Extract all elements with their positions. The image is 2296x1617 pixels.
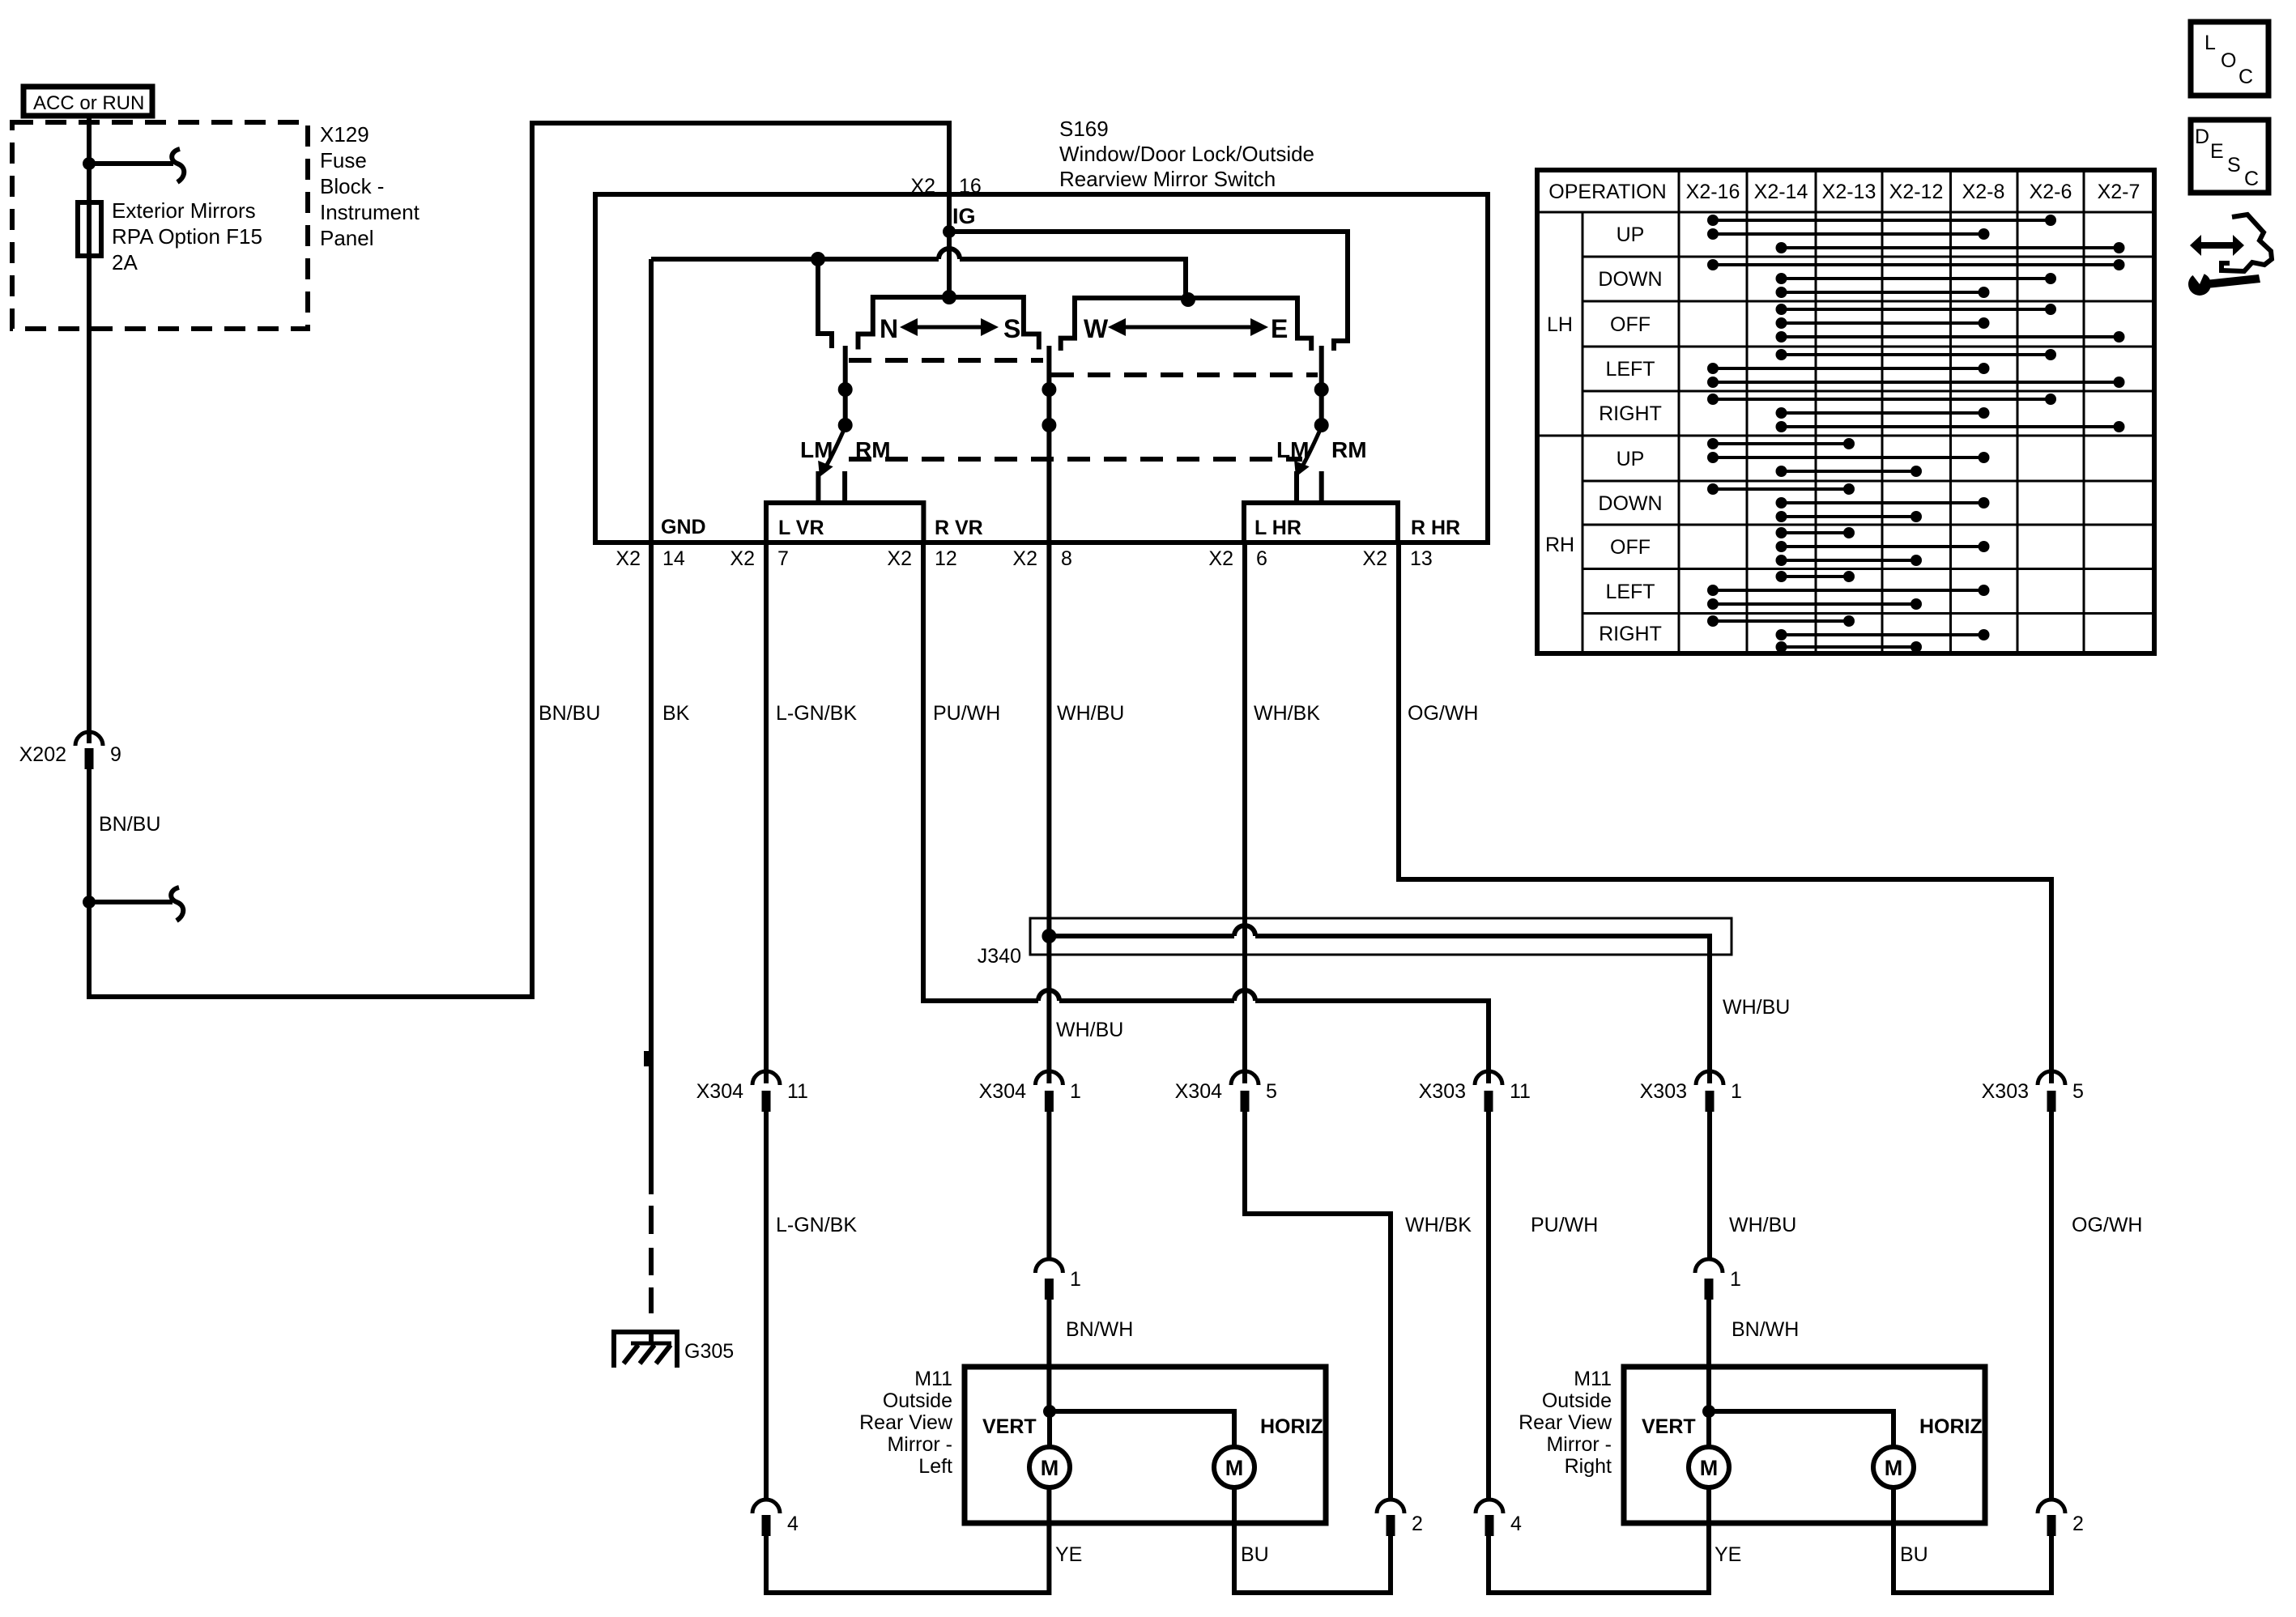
svg-text:X2: X2 bbox=[616, 547, 641, 570]
svg-text:WH/BU: WH/BU bbox=[1056, 1019, 1123, 1041]
svg-text:12: 12 bbox=[935, 547, 957, 570]
svg-text:7: 7 bbox=[777, 547, 789, 570]
svg-text:Rearview Mirror Switch: Rearview Mirror Switch bbox=[1059, 167, 1276, 191]
svg-text:LM: LM bbox=[800, 437, 833, 462]
svg-text:WH/BU: WH/BU bbox=[1057, 702, 1124, 725]
svg-text:W: W bbox=[1084, 314, 1109, 343]
svg-text:2: 2 bbox=[2072, 1513, 2084, 1535]
svg-text:X304: X304 bbox=[1175, 1080, 1222, 1103]
svg-text:X2-6: X2-6 bbox=[2030, 181, 2072, 203]
svg-text:D: D bbox=[2195, 126, 2209, 148]
svg-text:O: O bbox=[2221, 49, 2236, 72]
svg-text:BU: BU bbox=[1241, 1543, 1269, 1566]
svg-text:X2: X2 bbox=[1208, 547, 1233, 570]
svg-text:11: 11 bbox=[1510, 1080, 1531, 1103]
svg-text:5: 5 bbox=[2072, 1080, 2084, 1103]
svg-text:BN/BU: BN/BU bbox=[539, 702, 600, 725]
svg-text:X2: X2 bbox=[887, 547, 912, 570]
svg-text:6: 6 bbox=[1256, 547, 1267, 570]
svg-text:LEFT: LEFT bbox=[1605, 358, 1655, 381]
svg-text:S: S bbox=[2227, 154, 2241, 177]
svg-text:X129: X129 bbox=[320, 122, 369, 147]
svg-text:WH/BU: WH/BU bbox=[1729, 1214, 1796, 1236]
svg-text:L VR: L VR bbox=[778, 517, 824, 539]
svg-text:4: 4 bbox=[787, 1513, 799, 1535]
svg-text:YE: YE bbox=[1715, 1543, 1741, 1566]
svg-text:X2-7: X2-7 bbox=[2098, 181, 2141, 203]
svg-text:X303: X303 bbox=[1419, 1080, 1466, 1103]
svg-text:Block -: Block - bbox=[320, 174, 384, 198]
svg-text:L: L bbox=[2204, 32, 2216, 54]
svg-text:RIGHT: RIGHT bbox=[1599, 623, 1662, 645]
svg-text:2A: 2A bbox=[112, 250, 138, 274]
svg-text:Right: Right bbox=[1565, 1455, 1612, 1478]
svg-text:Fuse: Fuse bbox=[320, 148, 367, 172]
svg-text:BN/WH: BN/WH bbox=[1066, 1318, 1133, 1341]
svg-text:VERT: VERT bbox=[982, 1415, 1037, 1438]
svg-text:X2: X2 bbox=[730, 547, 755, 570]
svg-text:LM: LM bbox=[1276, 437, 1309, 462]
svg-text:L HR: L HR bbox=[1254, 517, 1301, 539]
svg-text:OFF: OFF bbox=[1610, 313, 1651, 336]
svg-text:VERT: VERT bbox=[1642, 1415, 1696, 1438]
svg-text:1: 1 bbox=[1730, 1268, 1741, 1291]
svg-text:S: S bbox=[1003, 314, 1020, 343]
svg-text:OG/WH: OG/WH bbox=[2072, 1214, 2143, 1236]
svg-text:1: 1 bbox=[1731, 1080, 1742, 1103]
svg-text:UP: UP bbox=[1617, 448, 1645, 470]
svg-text:BU: BU bbox=[1900, 1543, 1928, 1566]
svg-text:J340: J340 bbox=[978, 945, 1021, 968]
svg-text:Exterior Mirrors: Exterior Mirrors bbox=[112, 198, 256, 223]
svg-text:OPERATION: OPERATION bbox=[1548, 181, 1666, 203]
svg-text:13: 13 bbox=[1410, 547, 1433, 570]
svg-text:BK: BK bbox=[662, 702, 690, 725]
svg-text:WH/BU: WH/BU bbox=[1723, 996, 1790, 1019]
svg-text:9: 9 bbox=[110, 743, 121, 766]
svg-text:X202: X202 bbox=[19, 743, 66, 766]
svg-text:OFF: OFF bbox=[1610, 536, 1651, 559]
svg-text:X303: X303 bbox=[1640, 1080, 1687, 1103]
svg-text:RH: RH bbox=[1545, 534, 1574, 556]
svg-text:X304: X304 bbox=[696, 1080, 743, 1103]
svg-text:C: C bbox=[2244, 168, 2259, 190]
svg-text:C: C bbox=[2238, 66, 2253, 88]
svg-text:M11: M11 bbox=[914, 1368, 952, 1390]
svg-text:ACC or RUN: ACC or RUN bbox=[33, 92, 144, 114]
svg-text:M11: M11 bbox=[1574, 1368, 1612, 1390]
svg-text:LH: LH bbox=[1547, 313, 1573, 336]
svg-text:Mirror -: Mirror - bbox=[887, 1433, 952, 1456]
svg-text:M: M bbox=[1885, 1456, 1903, 1480]
svg-text:DOWN: DOWN bbox=[1598, 268, 1662, 291]
svg-text:E: E bbox=[1271, 314, 1288, 343]
svg-text:RM: RM bbox=[855, 437, 891, 462]
svg-text:11: 11 bbox=[787, 1080, 808, 1103]
svg-text:RM: RM bbox=[1331, 437, 1367, 462]
svg-text:X2: X2 bbox=[1012, 547, 1037, 570]
svg-text:HORIZ: HORIZ bbox=[1260, 1415, 1323, 1438]
svg-text:Mirror -: Mirror - bbox=[1546, 1433, 1612, 1456]
svg-text:R VR: R VR bbox=[935, 517, 983, 539]
svg-text:E: E bbox=[2210, 140, 2224, 163]
svg-text:G305: G305 bbox=[684, 1340, 734, 1363]
svg-text:Window/Door Lock/Outside: Window/Door Lock/Outside bbox=[1059, 142, 1314, 166]
svg-text:16: 16 bbox=[959, 175, 982, 198]
svg-text:OG/WH: OG/WH bbox=[1408, 702, 1479, 725]
svg-text:1: 1 bbox=[1070, 1080, 1081, 1103]
svg-text:R HR: R HR bbox=[1411, 517, 1460, 539]
svg-text:Rear View: Rear View bbox=[1519, 1411, 1612, 1434]
svg-text:M: M bbox=[1700, 1456, 1719, 1480]
svg-text:X2-14: X2-14 bbox=[1754, 181, 1808, 203]
svg-text:X303: X303 bbox=[1982, 1080, 2029, 1103]
svg-text:S169: S169 bbox=[1059, 117, 1109, 141]
svg-text:Rear View: Rear View bbox=[859, 1411, 953, 1434]
svg-text:PU/WH: PU/WH bbox=[933, 702, 1000, 725]
svg-text:14: 14 bbox=[662, 547, 685, 570]
svg-text:Left: Left bbox=[918, 1455, 952, 1478]
svg-text:X304: X304 bbox=[979, 1080, 1026, 1103]
svg-text:DOWN: DOWN bbox=[1598, 492, 1662, 515]
svg-text:BN/BU: BN/BU bbox=[99, 813, 160, 836]
svg-text:RPA Option F15: RPA Option F15 bbox=[112, 224, 262, 249]
svg-text:Instrument: Instrument bbox=[320, 200, 420, 224]
svg-text:WH/BK: WH/BK bbox=[1405, 1214, 1472, 1236]
svg-text:IG: IG bbox=[952, 204, 976, 228]
svg-text:YE: YE bbox=[1055, 1543, 1082, 1566]
svg-text:GND: GND bbox=[661, 516, 706, 538]
svg-text:WH/BK: WH/BK bbox=[1254, 702, 1320, 725]
svg-text:UP: UP bbox=[1617, 223, 1645, 246]
svg-text:X2-8: X2-8 bbox=[1962, 181, 2005, 203]
svg-text:X2-12: X2-12 bbox=[1889, 181, 1944, 203]
svg-text:BN/WH: BN/WH bbox=[1732, 1318, 1799, 1341]
svg-text:M: M bbox=[1225, 1456, 1244, 1480]
svg-text:M: M bbox=[1041, 1456, 1059, 1480]
svg-text:X2: X2 bbox=[1362, 547, 1387, 570]
svg-text:L-GN/BK: L-GN/BK bbox=[776, 1214, 857, 1236]
svg-text:X2-13: X2-13 bbox=[1822, 181, 1876, 203]
svg-text:2: 2 bbox=[1412, 1513, 1423, 1535]
svg-text:PU/WH: PU/WH bbox=[1531, 1214, 1598, 1236]
svg-text:Panel: Panel bbox=[320, 226, 374, 250]
svg-text:L-GN/BK: L-GN/BK bbox=[776, 702, 857, 725]
svg-text:X2: X2 bbox=[910, 175, 935, 198]
svg-text:4: 4 bbox=[1510, 1513, 1522, 1535]
svg-text:N: N bbox=[880, 314, 898, 343]
svg-text:5: 5 bbox=[1266, 1080, 1277, 1103]
svg-text:Outside: Outside bbox=[1542, 1389, 1612, 1412]
svg-text:HORIZ: HORIZ bbox=[1919, 1415, 1983, 1438]
svg-text:8: 8 bbox=[1061, 547, 1072, 570]
svg-text:RIGHT: RIGHT bbox=[1599, 402, 1662, 425]
svg-text:1: 1 bbox=[1070, 1268, 1081, 1291]
svg-text:Outside: Outside bbox=[883, 1389, 952, 1412]
svg-text:X2-16: X2-16 bbox=[1686, 181, 1740, 203]
svg-text:LEFT: LEFT bbox=[1605, 581, 1655, 603]
